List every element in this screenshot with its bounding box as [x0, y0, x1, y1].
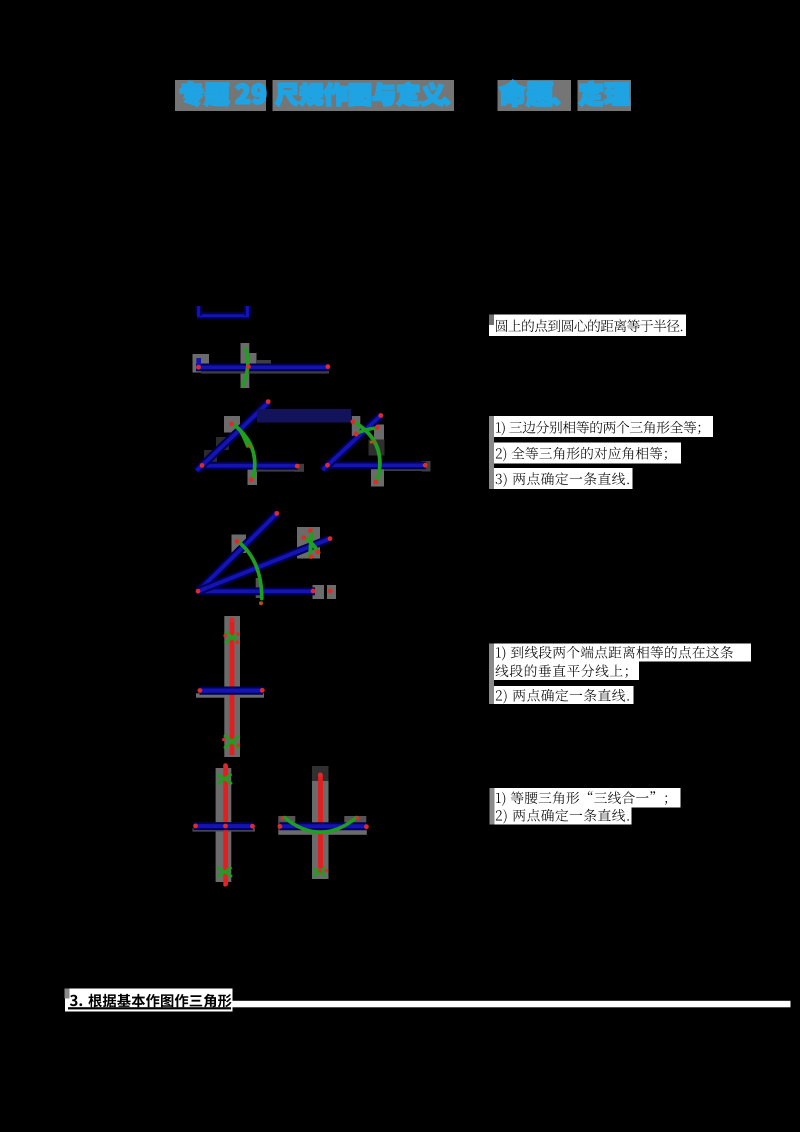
figure5 top cross arc 2 [226, 634, 238, 643]
text strip A gray mark [489, 315, 494, 326]
figure4 cross point 2 [308, 528, 313, 533]
figure5 top cross arc 1 [226, 633, 238, 643]
figure6b bottom cross arc 2 [314, 868, 324, 876]
text strip C2 white [494, 662, 639, 681]
figure3b arc point 3 [375, 425, 380, 430]
figure5 top cross dot lower [235, 640, 239, 644]
figure1 right end tick [244, 306, 251, 316]
figure6b gray box left tip [278, 816, 295, 829]
figure5 top cross dot left [223, 634, 227, 638]
figure3a small width arc [241, 432, 248, 446]
figure2 gray band right part [249, 353, 256, 372]
figure5 bottom cross arc 2 [225, 737, 238, 748]
text: 1) isosceles three-in-one [496, 791, 667, 806]
title text: mingti [499, 80, 552, 106]
figure4 cross point 1 [302, 535, 307, 540]
figure4 cross arc lower [304, 537, 319, 553]
figure3a base end point [295, 464, 300, 469]
text: 1) three sides equal -> congruent [496, 421, 700, 436]
figure4 below-line point [259, 601, 263, 605]
figure3a gray halo under line [254, 468, 298, 472]
figure3b oblique ray [323, 415, 382, 470]
figure4 vertex point [196, 589, 201, 594]
figure6b arc tip right point [356, 816, 360, 820]
figure6a top cross arc 1 [218, 775, 231, 783]
heading gray notch [65, 989, 70, 999]
figure6a perpendicular line [223, 766, 228, 886]
figure6b bottom point 2 [325, 869, 329, 873]
figure3a vertex point [200, 463, 205, 468]
heading strip [65, 989, 233, 1012]
figure6a top point [223, 763, 228, 768]
figure3b gray box 1 [352, 416, 361, 436]
figure6a top cross arc 2 [218, 775, 230, 783]
figure4 base ray [198, 587, 315, 595]
figure1 left end tick [195, 306, 202, 316]
figure3a oblique end point [266, 399, 271, 404]
heading text: 3. 根据基本作图作三角形 [70, 995, 82, 1007]
text strip D2 white [495, 808, 632, 825]
figure3a gray box below line [248, 470, 258, 486]
figure4 upper ray end point [274, 511, 279, 516]
text strip B3 white [494, 468, 633, 489]
text: ...on the perpendicular bisector [496, 664, 628, 677]
figure6b big arc below segment [285, 818, 357, 833]
figure3b arc point 2 [354, 432, 359, 437]
figure4 cross point 3 [309, 554, 314, 559]
figure3b vertex point [325, 463, 330, 468]
figure6a mid point [223, 824, 228, 829]
figure2 line AB [196, 363, 329, 371]
figure6b arc tip left point [281, 816, 285, 820]
selection highlight box [257, 409, 351, 423]
figure2 point B [326, 364, 331, 369]
text block C gray column [489, 644, 494, 705]
figure4 gray box at bisector arcs [297, 527, 320, 559]
underline continuation bar [233, 1001, 791, 1008]
figure4 far right point [328, 589, 333, 594]
figure5 gray band behind bisector [224, 616, 240, 757]
text strip C3 white [494, 686, 634, 704]
figure4 cross arc upper [310, 531, 311, 557]
figure5 point A [198, 688, 203, 693]
figure2 left tick [196, 358, 201, 367]
figure6b gray box right tip [344, 816, 366, 828]
figure4 arc mark point [234, 539, 239, 544]
figure3b gray box 2 [374, 425, 384, 445]
figure5 top end point [230, 617, 235, 622]
figure3a base ray [201, 462, 298, 470]
text strip B1 white [494, 416, 713, 437]
text strip A white [489, 315, 686, 337]
figure2 midpoint [246, 364, 251, 369]
figure3a faint smudge 1 [204, 450, 217, 462]
figure6b left point [278, 824, 283, 829]
figure6a bottom cross arc 1 [218, 868, 231, 876]
text strip D1 white [495, 788, 681, 808]
figure3a oblique ray [197, 402, 270, 471]
figure3b width arc upper [356, 428, 378, 434]
figure1 segment a glow [197, 312, 249, 319]
figure3a faint smudge 2 [216, 437, 229, 450]
figure4 gray box below arc bottom [256, 578, 261, 598]
text block D gray column [490, 788, 495, 825]
figure3b arc point 1 [351, 419, 356, 424]
figure6b bottom point [318, 869, 322, 873]
figure6a right point [250, 824, 255, 829]
title text: dunhao 2 [552, 98, 560, 106]
heading underline [68, 1007, 231, 1009]
figure4 bisector ray [198, 539, 329, 591]
title highlight strip 3 [498, 80, 572, 111]
title text: dingli [579, 81, 629, 106]
text: 3) two points determine a line [496, 472, 629, 487]
figure5 point B [260, 688, 265, 693]
figure6b segment [280, 822, 367, 830]
figure4 base end point [311, 589, 316, 594]
figure3b base end point [423, 463, 428, 468]
figure5 gray halo strip at segment [196, 693, 264, 697]
figure6b top point [318, 773, 323, 778]
text strip C1 white [494, 644, 751, 662]
text: 2) two points determine a line [496, 809, 629, 824]
figure2 green arc through midpoint [243, 349, 248, 385]
figure6a gray band behind line [216, 768, 232, 882]
figure5 bottom cross dot right [237, 743, 241, 747]
figure3a overlap mark [248, 445, 251, 448]
figure6b gray halo strip under segment [278, 829, 367, 835]
figure6b bottom cross arc 1 [314, 869, 325, 875]
title text: 29 [236, 84, 266, 104]
figure3b gray box right end [422, 461, 431, 472]
title highlight strip 1 [175, 80, 266, 111]
text: circle radius note [496, 319, 682, 332]
figure2 point A [196, 365, 201, 370]
title text: zhuanti [180, 82, 229, 106]
figure3b overlap mark [370, 440, 376, 443]
title text: chigui zuotu yu dingyi [275, 83, 444, 106]
figure4 arc centered at vertex [238, 541, 262, 599]
text: 2) two points determine a line [496, 689, 629, 704]
figure4 cross point 4 [316, 550, 321, 555]
title highlight strip 2 [273, 80, 455, 111]
figure3b gray box below line [371, 466, 384, 487]
figure2 gray halo above line right [256, 360, 271, 365]
figure3a big arc centered at vertex [234, 425, 255, 478]
figure5 bottom cross arc 1 [225, 736, 239, 748]
text strip B2 white [494, 443, 681, 464]
figure3a below-line point [249, 477, 254, 482]
figure5 segment AB [200, 686, 264, 694]
figure3b oblique end point [378, 413, 383, 418]
title highlight strip 4 [578, 80, 632, 111]
figure5 top cross dot right [236, 632, 240, 636]
figure6a gray halo strip at segment [193, 828, 256, 831]
title text: dunhao 1 [442, 98, 450, 106]
figure3b gray faint box [369, 440, 385, 456]
figure2 gray halo below line [201, 369, 329, 373]
figure6a bottom point [223, 883, 227, 887]
figure3a arc mark point [229, 422, 234, 427]
figure6a left point [193, 824, 198, 829]
figure4 gray label box on upper ray [232, 535, 247, 554]
figure3b gray halo under line [384, 467, 425, 471]
figure4 upper ray [198, 513, 278, 591]
text: 1) points equidistant from endpoints... [496, 646, 733, 661]
figure3b base ray [328, 461, 427, 469]
figure4 gray box line end [313, 585, 325, 599]
figure6b gray band behind line [312, 781, 329, 879]
text block B gray column [489, 416, 494, 489]
figure6b right point [364, 824, 369, 829]
figure1 segment a [197, 314, 249, 317]
figure3a gray label box upper [224, 416, 240, 433]
text: 2) corresponding angles equal [496, 447, 667, 462]
figure6a bottom cross arc 2 [218, 868, 230, 877]
figure6b dark box top [312, 766, 329, 781]
figure2 gray band behind arc [241, 343, 250, 388]
figure6a segment [194, 822, 254, 830]
figure2 gray label box left [193, 354, 210, 373]
figure6b perpendicular line [318, 775, 323, 869]
figure3b big arc centered at vertex [354, 422, 380, 480]
figure3b below-line point [374, 479, 379, 484]
figure5 bottom cross dot left [222, 738, 226, 742]
figure4 bisector end point [328, 536, 333, 541]
figure4 gray box far right [327, 585, 336, 599]
figure3a gray box right end [295, 464, 305, 472]
figure5 perpendicular bisector line [230, 619, 235, 755]
